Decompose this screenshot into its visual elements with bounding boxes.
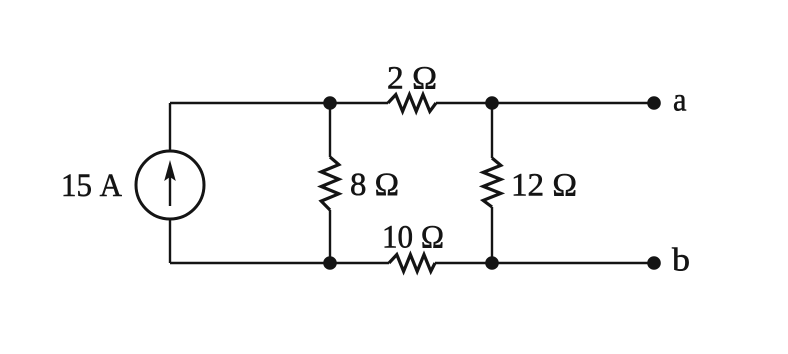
terminal a dot [647, 96, 661, 110]
wire bottom stub of 8ohm branch [329, 210, 331, 263]
junction node 2 [485, 96, 499, 110]
wire top from source to node 1 [170, 102, 330, 104]
svg-text:b: b [672, 243, 690, 279]
wire bottom from source to node 3 [170, 262, 330, 264]
svg-text:15 A: 15 A [61, 168, 122, 204]
wire bottom stub of 12ohm branch [491, 207, 493, 263]
wire left vertical below source [169, 219, 171, 263]
junction node 3 [323, 256, 337, 270]
svg-text:12 Ω: 12 Ω [511, 168, 577, 204]
svg-text:8 Ω: 8 Ω [350, 167, 399, 203]
resistor 8 ohm [321, 157, 339, 210]
wire top from node 1 to resistor 2ohm [330, 102, 388, 104]
svg-text:2 Ω: 2 Ω [387, 61, 437, 97]
wire top stub of 12ohm branch [491, 103, 493, 158]
svg-text:a: a [673, 83, 687, 119]
current source 15 A [136, 151, 204, 219]
wire left vertical above source [169, 103, 171, 151]
wire top from node 2 to terminal a [492, 102, 654, 104]
wire bottom from resistor 10ohm to node 4 [435, 262, 492, 264]
svg-text:10 Ω: 10 Ω [382, 220, 444, 256]
wire bottom from node 4 to terminal b [492, 262, 654, 264]
junction node 1 [323, 96, 337, 110]
resistor 10 ohm [389, 255, 435, 272]
junction node 4 [485, 256, 499, 270]
resistor 12 ohm [483, 158, 501, 207]
wire bottom from node 3 to resistor 10ohm [330, 262, 389, 264]
wire top from resistor 2ohm to node 2 [436, 102, 492, 104]
resistor 2 ohm [388, 95, 436, 112]
wire top stub of 8ohm branch [329, 103, 331, 157]
terminal b dot [647, 256, 661, 270]
